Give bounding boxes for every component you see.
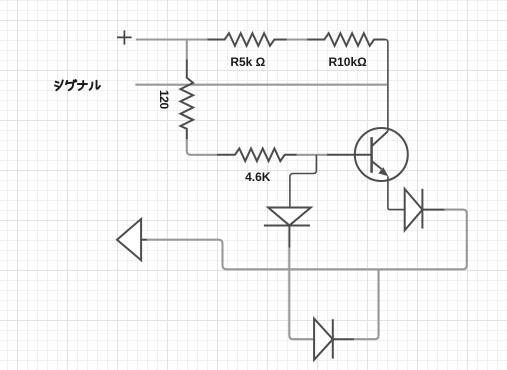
- wire: transistor emitter down to diode D2: [388, 176, 405, 209]
- wire: D3 cathode right and up to bottom rail: [354, 269, 379, 339]
- svg-text:120: 120: [157, 90, 171, 110]
- wire: R10k right end down to transistor collector: [385, 40, 388, 132]
- resistor R5k (element with leads): [207, 33, 287, 46]
- node + (positive supply terminal): [117, 30, 132, 44]
- label シグナル (signal) hand-drawn katakana: [55, 80, 100, 90]
- diode D3 (bottom, pointing right): [314, 319, 354, 360]
- wire: R5k to R10k: [287, 38, 308, 40]
- wire: 4.6K to transistor base: [297, 154, 327, 156]
- resistor 4.6K (element with leads): [217, 149, 297, 162]
- wire: + terminal to R5k left lead: [136, 38, 208, 40]
- wire: D1 cathode down through bottom rail to diode D3 anode: [289, 248, 314, 340]
- wire: D2 cathode right, down, left along bottom rail, up to output arrow: [147, 210, 467, 270]
- svg-text:R10kΩ: R10kΩ: [328, 55, 367, 69]
- output arrow (left-pointing triangle): [117, 219, 147, 260]
- svg-text:4.6K: 4.6K: [245, 170, 271, 184]
- resistor R10k (element with leads): [307, 33, 385, 46]
- wire: signal line (シグナル) to collector node: [135, 84, 387, 86]
- transistor Q1 (NPN): [327, 128, 408, 181]
- wire: base line jog down-left to diode D1: [290, 155, 317, 208]
- diode D2 (right, pointing right): [405, 189, 445, 231]
- svg-text:R5k Ω: R5k Ω: [230, 55, 265, 69]
- wire: junction on + rail down to 120 resistor top lead: [186, 40, 188, 60]
- diode D1 (vertical, pointing down): [264, 208, 311, 248]
- resistor 120 (vertical element with leads): [181, 59, 194, 139]
- wire: 120 resistor bottom to 4.6K resistor: [187, 139, 217, 154]
